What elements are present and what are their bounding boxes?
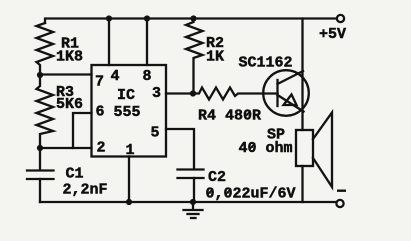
wire speaker to bottom rail bbox=[301, 166, 303, 202]
label minus sign bbox=[337, 190, 346, 192]
wire pin5 bbox=[166, 129, 194, 169]
wire pin2 bbox=[40, 147, 92, 149]
resistor R4 bbox=[193, 88, 278, 100]
svg-text:2,2nF: 2,2nF bbox=[63, 182, 108, 199]
svg-text:7: 7 bbox=[95, 74, 104, 91]
svg-text:SC1162: SC1162 bbox=[239, 55, 293, 72]
svg-text:+5V: +5V bbox=[319, 26, 346, 43]
node junction R1/R3/pin7 bbox=[37, 72, 43, 78]
speaker SP bbox=[296, 113, 332, 188]
svg-text:6: 6 bbox=[96, 104, 105, 121]
wire pin6 bbox=[73, 113, 92, 148]
wire pin8 bbox=[146, 19, 148, 66]
svg-text:4: 4 bbox=[111, 68, 120, 85]
op-amp U1 IC 555 box bbox=[92, 65, 167, 157]
resistor R2 bbox=[186, 19, 203, 93]
terminal +5V circle bbox=[337, 15, 344, 22]
wire bottom rail bbox=[40, 201, 336, 203]
svg-text:1K8: 1K8 bbox=[56, 49, 83, 66]
node junction rail/pin8 bbox=[144, 15, 150, 21]
svg-text:3: 3 bbox=[152, 85, 161, 102]
svg-text:8: 8 bbox=[143, 68, 152, 85]
svg-text:0,022uF/6V: 0,022uF/6V bbox=[206, 186, 296, 203]
wire pin3 bbox=[166, 92, 193, 94]
svg-text:1K: 1K bbox=[206, 49, 224, 66]
svg-text:5: 5 bbox=[151, 125, 160, 142]
capacitor C2 bbox=[178, 170, 204, 203]
svg-text:R4 480R: R4 480R bbox=[198, 108, 261, 125]
resistor R1 bbox=[37, 23, 54, 74]
ground bbox=[184, 202, 203, 218]
svg-text:555: 555 bbox=[114, 104, 141, 121]
node junction rail/R2 bbox=[190, 15, 196, 21]
capacitor C1 bbox=[27, 148, 54, 202]
wire pin7 bbox=[40, 73, 92, 75]
node junction pin1/ground rail bbox=[126, 199, 132, 205]
svg-text:C2: C2 bbox=[208, 169, 226, 186]
transistor Q1 SC1162 bbox=[263, 70, 309, 116]
terminal minus circle bbox=[336, 200, 343, 207]
svg-text:40 ohm: 40 ohm bbox=[239, 140, 293, 157]
wire pin1 bbox=[128, 157, 130, 203]
svg-text:2: 2 bbox=[97, 140, 106, 157]
node junction pin3/R2/R4 bbox=[190, 90, 196, 96]
resistor R3 bbox=[37, 75, 54, 147]
node junction rail/pin4 bbox=[106, 15, 112, 21]
node junction ground bbox=[190, 199, 196, 205]
svg-text:IC: IC bbox=[117, 87, 135, 104]
wire pin4 bbox=[108, 19, 110, 66]
wire top rail +5V bbox=[45, 19, 336, 24]
svg-text:C1: C1 bbox=[66, 166, 84, 183]
wire collector to rail and emitter to speaker bbox=[301, 19, 303, 131]
svg-text:5K6: 5K6 bbox=[56, 96, 83, 113]
node junction R3/C1/pin2 bbox=[37, 145, 43, 151]
